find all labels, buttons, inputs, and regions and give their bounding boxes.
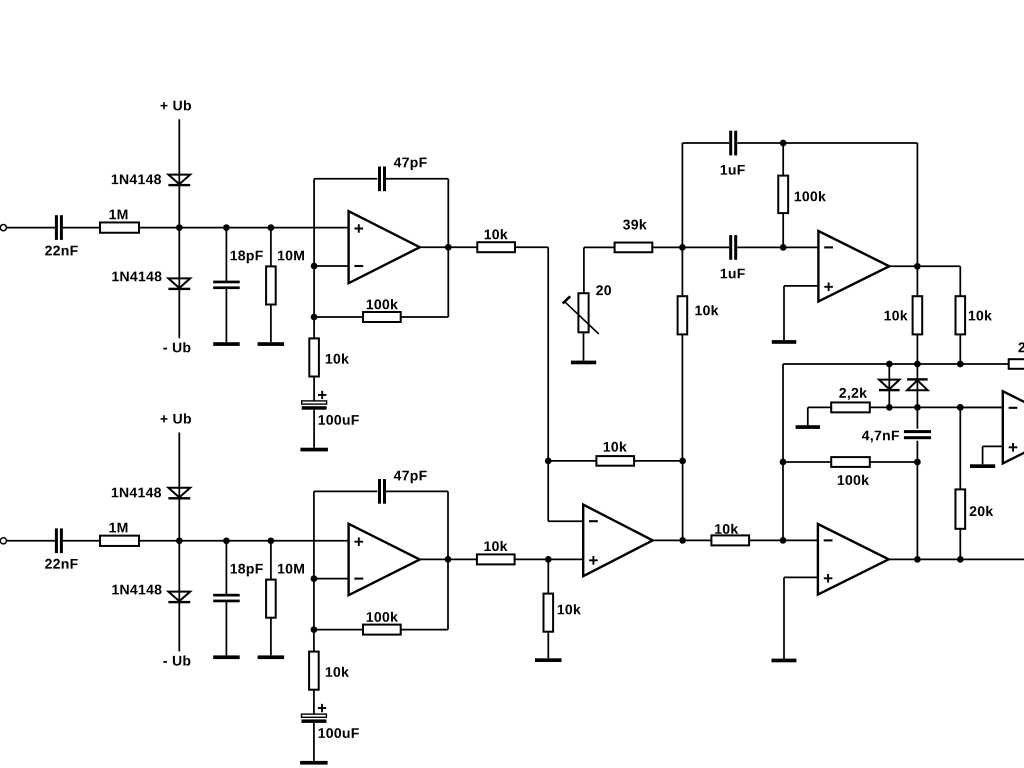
wire U3 plus below [547,559,549,593]
wire [139,227,349,229]
wire [386,490,449,492]
wire [313,317,315,338]
label 1N4148 D6 [112,585,161,595]
wire [313,723,315,761]
wire [782,213,784,247]
label 20 (pot) [596,285,611,295]
label 47pF [394,158,427,171]
wire [682,461,684,541]
wire [547,632,549,659]
wire feedback right vertical ch1 [447,179,449,247]
label 10k R16 [885,310,908,320]
label 22nF [45,246,78,256]
wire [807,407,809,425]
label 1N4148 D2 [112,271,161,281]
op-amp U4 (bandpass) [818,231,889,302]
wire [583,332,585,360]
label 10k R12 [558,604,581,614]
wire [62,540,100,542]
node clip mid left [886,404,893,411]
ground 100uF ch2 [300,761,328,765]
resistor 10k R13 (U3 to U5) [711,535,749,545]
ground 10M ch1 [258,342,285,346]
wire clip left vertical [782,364,784,540]
node U5 fb left [780,459,787,466]
capacitor 100uF C4 (electrolytic) [302,391,327,410]
wire [916,462,918,559]
label 100uF C4 [319,415,359,425]
ground U3 plus [535,658,562,662]
wire [982,446,984,464]
wire feedback left vertical ch2 [313,491,315,629]
resistor 10k R21 (bandpass input) [678,296,688,334]
node U5 minus [780,537,787,544]
resistor 39k R14 [615,243,653,253]
resistor 10M R7 [266,580,276,618]
wire U3 output [653,539,712,541]
label 100k R4 [367,299,398,309]
wire [916,334,918,364]
node 10M branch ch1 [268,224,275,231]
resistor 100k R15 (U4 feedback) [778,176,788,214]
wire [916,364,918,407]
label 1M [110,210,128,220]
resistor 2,2k R18 [831,402,870,412]
label 100k R15 [795,191,826,201]
resistor 1M R6 [100,536,139,546]
wire [870,406,1003,408]
potentiometer 20 (trimmer) [563,293,599,334]
wire [916,266,918,296]
diode D3 (clipper down) [879,380,900,392]
label 1M R6 [110,523,128,533]
wire [681,334,683,461]
wire [783,577,785,658]
wire [7,540,56,542]
wire clip top row [783,363,1009,365]
wire [313,630,315,652]
node clip mid right [957,404,964,411]
resistor 10k R10 (ch2 gain) [309,652,319,690]
node U4 output [914,263,921,270]
wire [139,540,349,542]
wire output ch2 [420,558,477,560]
resistor 20k R20 [955,489,965,528]
wire U6 plus [983,445,1003,447]
label 10k R21 [695,305,718,315]
ground 100uF ch1 [300,448,328,452]
op-amp U2 channel 2 [349,524,420,595]
wire feedback top ch1 [314,178,377,180]
node input ch1 [176,224,183,231]
capacitor 4,7nF C11 [904,430,931,439]
wire [270,228,272,267]
capacitor 47pF C7 [378,479,386,504]
label 4,7nF [862,431,899,443]
wire [313,377,315,401]
wire [313,410,315,448]
wire U6 minus [960,406,1003,408]
node top row [780,140,787,147]
input terminal channel 2 [0,538,6,544]
ground U4 plus [772,340,797,344]
wire 1uF row [682,246,729,248]
wire [749,539,818,541]
wire 20k branch [959,407,961,489]
resistor 10k R16 [913,296,923,334]
wire down to U4 output [916,143,918,266]
wire U4 plus [784,285,818,287]
diode 1N4148 D5 (to +Ub) [168,488,190,500]
label 1N4148 D5 [112,488,161,498]
capacitor 18pF C6 [213,594,240,603]
label 10k R5 [326,354,349,364]
wire [737,142,917,144]
wire U4 output [889,265,960,267]
wire [386,178,449,180]
capacitor 100uF C8 (electrolytic) [302,704,327,723]
wire [584,246,615,248]
wire [447,559,449,629]
wire feedback left vertical ch1 [313,179,315,317]
wire [270,618,272,656]
resistor 100k R4 (ch1 feedback) [363,312,401,322]
wire [225,602,227,655]
label + Ub ch1 [161,100,192,110]
node mix row right [679,458,686,465]
wire [634,460,683,462]
label 47pF C7 [394,471,427,484]
wire [959,334,961,364]
label 10k R17 [969,310,992,320]
wire feedback bottom ch1 [314,316,363,318]
label 10k R10 [326,667,349,677]
wire [270,305,272,343]
label - Ub ch2 [163,655,190,665]
ground 10M ch2 [258,655,285,659]
label 10M R7 [278,564,304,574]
label 10k R8 [484,541,507,551]
resistor 10k R11 (mix) [596,456,634,466]
capacitor 22nF C5 [55,528,63,553]
label 100k R19 [838,475,869,485]
diode D4 (clipper up) [907,378,928,390]
label 100uF C8 [319,728,359,738]
op-amp U6 (output, cut off) [1003,391,1024,463]
op-amp U1 channel 1 [349,211,420,283]
wire +Ub to -Ub ch2 [178,433,180,652]
label 2,2k [839,388,867,400]
label 22nF C5 [45,559,78,569]
wire [401,316,449,318]
node clip top mid [914,361,921,368]
node output ch2 [445,556,452,563]
wire [888,364,890,407]
label 22k (cut off) [1018,342,1024,352]
node clip top left [886,361,893,368]
wire minus input ch2 [314,578,349,580]
resistor 1M R1 [100,222,139,232]
wire [547,461,549,521]
label 1uF C9 [721,165,745,175]
wire top row left vertical [681,143,683,247]
node clip mid [914,404,921,411]
wire 100k row [783,461,831,463]
label 10k R11 [604,442,627,452]
capacitor 22nF C1 [55,215,63,240]
label 20k [970,506,994,516]
label 10M [278,251,304,261]
node output ch1 [445,244,452,251]
ground U6 plus [970,464,995,468]
wire [515,558,584,560]
node input ch2 [176,537,183,544]
resistor 10k R8 (ch2 output) [477,554,515,564]
label - Ub ch1 [163,342,190,352]
node U5 fb right [914,459,921,466]
resistor 10M R2 [266,266,276,304]
node clip top right [957,361,964,368]
wire [225,228,227,282]
node U6 minus branch [957,404,964,411]
label 100k R9 [367,612,398,622]
wire [959,266,961,296]
node bandpass input [679,244,686,251]
node U5 out mid [914,556,921,563]
ground U5 plus [772,659,797,663]
node U5 out right [957,556,964,563]
node ch2 to U3 plus [545,556,552,563]
node mix row left [545,458,552,465]
capacitor 47pF C3 [378,167,386,192]
label 1uF C10 [721,269,745,279]
ground 18pF ch2 [213,655,240,659]
wire [313,690,315,714]
capacitor 1uF C9 (top) [729,131,737,156]
diode 1N4148 D6 (to -Ub) [168,592,190,604]
resistor 22k (right edge, cut off) [1009,359,1024,369]
wire 2,2k row [808,406,831,408]
wire [515,246,548,248]
capacitor 1uF C10 (to U4 minus) [729,235,737,260]
resistor 100k R19 (U5 feedback) [831,457,870,467]
op-amp U3 (mixer) [583,505,653,577]
node 10M branch ch2 [268,537,275,544]
resistor 10k R12 (U3 plus to gnd) [544,594,554,632]
wire 39k row [615,246,683,248]
wire +Ub to -Ub ch1 [178,119,180,338]
label 18pF C6 [231,564,263,577]
wire 100k branch top [782,143,784,176]
wire [870,461,918,463]
ground pot [571,361,596,365]
wire [737,246,818,248]
wire feedback bottom ch2 [314,629,363,631]
node feedback bottom ch1 [311,314,318,321]
wire [548,460,596,462]
wire to pot [583,247,585,293]
wire [783,286,785,340]
label 18pF [231,251,263,264]
label + Ub ch2 [161,413,192,423]
wire minus input ch1 [314,265,349,267]
label 39k [623,219,647,229]
resistor 10k R5 (ch1 gain) [309,338,319,376]
op-amp U5 (clipper) [818,524,889,595]
wire [270,541,272,580]
node U4 minus [780,244,787,251]
wire U5 output [889,558,1024,560]
node U3 output [679,537,686,544]
node 18pF branch ch1 [223,224,230,231]
ground 18pF ch1 [213,342,240,346]
diode 1N4148 D2 (to -Ub) [168,278,190,290]
input terminal channel 1 [0,225,6,231]
capacitor 18pF C2 [213,281,240,290]
wire ch1 output down [547,247,549,461]
resistor 10k R3 (ch1 output) [477,242,515,252]
wire [447,247,449,317]
wire [401,629,448,631]
ground 2,2k [796,425,820,429]
wire [959,529,961,560]
wire output ch1 [420,246,478,248]
wire feedback right vertical ch2 [447,491,449,559]
resistor 10k R17 [956,296,966,334]
wire top row [682,142,729,144]
wire U5 plus [784,576,818,578]
wire [681,247,683,296]
wire [916,441,918,462]
wire [62,227,100,229]
label 10k R3 [485,229,508,239]
node minus input ch2 [311,575,318,582]
wire [225,541,227,595]
wire [916,407,918,428]
diode 1N4148 D1 (to +Ub) [168,175,190,187]
node 18pF branch ch2 [223,537,230,544]
wire [7,227,56,229]
label 10k R13 [715,524,738,534]
wire to U3 minus [548,520,583,522]
node minus input ch1 [311,263,318,270]
node feedback bottom ch2 [311,626,318,633]
wire [225,289,227,342]
resistor 100k R9 (ch2 feedback) [363,625,401,635]
wire feedback top ch2 [314,490,377,492]
label 1N4148 D1 [112,174,161,184]
